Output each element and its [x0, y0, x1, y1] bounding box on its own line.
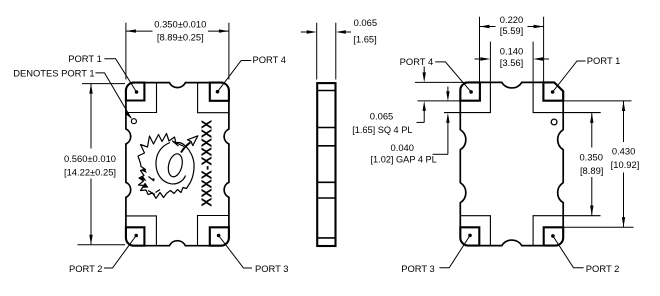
arrowhead 0.040 GAP bottom [446, 113, 449, 123]
logo head eye and jaw [148, 177, 160, 195]
pad bottom extension lines [418, 101, 634, 227]
dimension 0.140 [475, 42, 550, 82]
svg-text:0.350: 0.350 [579, 152, 602, 163]
top edge extension line (bottom view) [415, 81, 468, 83]
terminal boundary top-left [126, 83, 157, 113]
dimension line [126, 30, 153, 32]
svg-text:PORT 1: PORT 1 [68, 53, 102, 64]
pad PORT 1 (top-left) [126, 83, 144, 101]
extension line left [125, 23, 127, 80]
body outline top view [126, 83, 229, 246]
dimension 0.065 thickness [301, 23, 351, 80]
terminal boundary top-right [198, 83, 229, 113]
arrowhead 0.430 bottom [622, 217, 625, 227]
body outline bottom view [460, 82, 563, 245]
svg-text:[1.65] SQ 4 PL: [1.65] SQ 4 PL [352, 125, 412, 135]
svg-text:0.065: 0.065 [370, 111, 393, 122]
dimension 0.065 SQ 4 PL [417, 67, 425, 123]
extension line top [82, 83, 125, 85]
pad PORT 2 (bottom-left) [126, 227, 144, 245]
leader PORT 4 bottom view [435, 62, 471, 92]
svg-text:PORT 3: PORT 3 [255, 263, 289, 274]
svg-text:PORT 4: PORT 4 [253, 54, 287, 65]
dimension 0.220 [480, 17, 544, 82]
arrowhead 0.350 right [219, 29, 229, 32]
logo jaw teeth [141, 168, 147, 174]
leader PORT 3 [219, 236, 252, 269]
dimension 0.040 GAP 4 PL [433, 87, 448, 155]
extension line bottom [78, 244, 126, 246]
logo inner hole [166, 152, 184, 178]
svg-text:0.430: 0.430 [612, 145, 635, 156]
pin 1 index circle bottom view [551, 119, 557, 125]
pad PORT 2 (bottom view bottom-right) [544, 227, 564, 245]
svg-text:0.220: 0.220 [500, 14, 523, 25]
arrowhead 0.350 left [126, 29, 136, 32]
leader PORT 4 [218, 61, 252, 92]
svg-text:[3.56]: [3.56] [500, 57, 523, 68]
svg-text:[14.22±0.25]: [14.22±0.25] [64, 167, 116, 178]
terminal boundary bottom-right [198, 216, 229, 246]
svg-text:[5.59]: [5.59] [500, 25, 523, 36]
leader PORT 2 [104, 236, 136, 269]
svg-text:[1.02] GAP 4 PL: [1.02] GAP 4 PL [371, 154, 437, 164]
leader PORT 3 bottom view [439, 235, 470, 267]
logo dragon [138, 134, 198, 199]
pad PORT 3 (bottom view bottom-left) [460, 227, 479, 245]
svg-text:PORT 2: PORT 2 [586, 263, 620, 274]
side view body [317, 83, 335, 246]
svg-text:DENOTES PORT 1: DENOTES PORT 1 [13, 67, 94, 78]
logo tail barb [173, 141, 185, 147]
arrowhead 0.350 right bottom [590, 206, 593, 216]
svg-text:PORT 3: PORT 3 [401, 263, 435, 274]
leader PORT 1 bottom view [553, 61, 586, 92]
dimension 0.350 +/-0.010 top [126, 23, 229, 80]
terminal boundary top-right with extension [533, 82, 601, 112]
logo outer flame body [138, 134, 194, 199]
terminal boundary bottom-left [460, 216, 490, 246]
extension line right [228, 23, 230, 80]
logo arrowhead [188, 136, 198, 146]
pad PORT 3 (bottom-right) [210, 227, 229, 245]
svg-text:[8.89]: [8.89] [580, 165, 603, 176]
arrowhead 0.040 GAP top [446, 91, 449, 101]
leader DENOTES PORT 1 [95, 73, 130, 118]
svg-text:[8.89±0.25]: [8.89±0.25] [157, 31, 204, 42]
arrowhead 0.065 SQ top [423, 72, 426, 82]
svg-text:0.560±0.010: 0.560±0.010 [64, 153, 116, 164]
svg-text:[10.92]: [10.92] [611, 159, 640, 170]
arrowhead 0.065 SQ bottom [423, 101, 426, 111]
dimension 0.430 right [623, 101, 625, 227]
svg-text:PORT 4: PORT 4 [400, 56, 434, 67]
dimension 0.350 right [591, 113, 593, 216]
side view layer lines [317, 90, 335, 92]
arrowhead 0.065 left [307, 30, 317, 33]
svg-text:[1.65]: [1.65] [353, 34, 376, 45]
dimension line [90, 84, 92, 149]
pad PORT 1 (bottom view top-right, chamfered) [543, 82, 563, 100]
arrowhead 0.560 bottom [89, 235, 92, 245]
arrowhead 0.140 right [533, 57, 543, 60]
svg-text:0.065: 0.065 [354, 17, 377, 28]
pin 1 index circle [131, 119, 136, 124]
arrowhead 0.350 right top [590, 113, 593, 123]
arrowhead 0.220 left [480, 25, 490, 28]
svg-text:0.040: 0.040 [391, 142, 414, 153]
arrowhead 0.220 right [534, 25, 544, 28]
svg-text:XXXX-XXXXX: XXXX-XXXXX [199, 119, 215, 206]
svg-text:0.140: 0.140 [500, 46, 523, 57]
arrowhead 0.430 top [622, 101, 625, 111]
leader PORT 1 [104, 59, 136, 92]
svg-text:PORT 1: PORT 1 [587, 55, 621, 66]
arrowhead 0.065 right [336, 30, 346, 33]
svg-text:PORT 2: PORT 2 [69, 263, 103, 274]
terminal boundary bottom-left [126, 216, 156, 246]
leader PORT 2 bottom view [553, 236, 584, 268]
logo tail arrow shaft [181, 142, 191, 152]
leader arrowhead DENOTES PORT 1 [125, 112, 132, 119]
svg-text:0.350±0.010: 0.350±0.010 [154, 19, 206, 30]
dimension 0.560 +/-0.010 left [78, 84, 126, 245]
terminal boundary top-left with extension [444, 82, 490, 112]
pad PORT 4 (bottom view top-left) [460, 82, 480, 100]
arrowhead 0.560 top [89, 84, 92, 94]
terminal boundary bottom-right with extension [533, 216, 600, 246]
logo inner coil [156, 143, 186, 184]
pad PORT 4 (top-right) [210, 83, 229, 101]
arrowhead 0.140 left [480, 57, 490, 60]
